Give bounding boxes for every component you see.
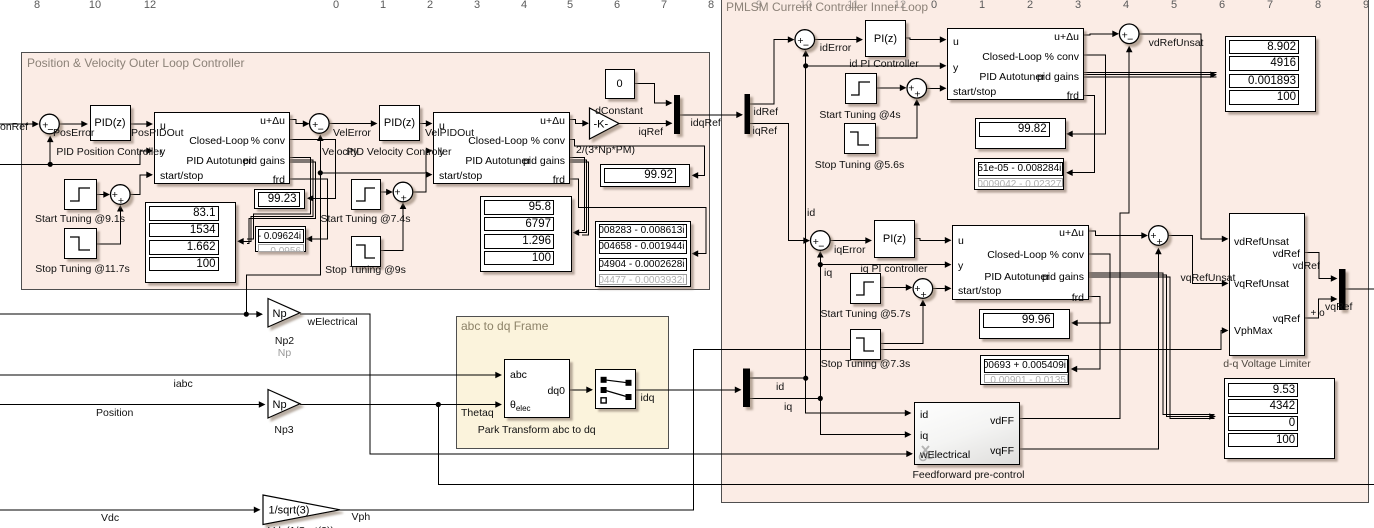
svg-text:−: − <box>318 123 324 135</box>
svg-text:+: + <box>118 195 124 207</box>
svg-text:+: + <box>1157 236 1163 248</box>
svg-text:+: + <box>921 289 927 301</box>
svg-text:−: − <box>1127 34 1133 46</box>
svg-text:Np: Np <box>273 399 287 411</box>
svg-text:+: + <box>914 89 920 101</box>
svg-text:-K-: -K- <box>594 119 609 131</box>
svg-text:+: + <box>401 192 407 204</box>
svg-text:−: − <box>803 39 809 51</box>
svg-text:Np: Np <box>273 308 287 320</box>
svg-text:1/sqrt(3): 1/sqrt(3) <box>269 505 310 517</box>
svg-text:−: − <box>818 240 824 252</box>
